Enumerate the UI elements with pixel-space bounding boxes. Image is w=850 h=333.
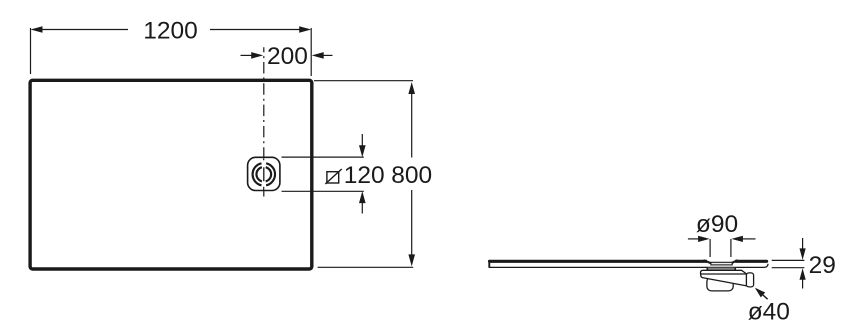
arrowhead 800 top (points up) xyxy=(408,82,415,94)
arrowhead 1200 right xyxy=(299,26,311,33)
arrowhead 29 bottom (points up) xyxy=(800,268,806,280)
dimension 200 right tail xyxy=(322,54,333,56)
arrowhead o90 right (points left) xyxy=(731,236,743,242)
arrowhead 120 top (points down) xyxy=(359,145,366,157)
extension line right (1200/200) xyxy=(310,28,312,76)
drain recess cut-out xyxy=(707,258,735,266)
drain cover plate xyxy=(711,262,732,265)
tray bottom line xyxy=(489,264,768,268)
drain outer circle right arc xyxy=(266,163,275,185)
drain rounded square xyxy=(248,157,280,190)
arrowhead 200 left (points right at centerline) xyxy=(251,52,263,59)
dimension 29 top arrow tail xyxy=(802,238,804,250)
arrowhead 800 bottom (points down) xyxy=(408,254,415,266)
dimension 120 bottom arrow tail xyxy=(361,202,363,214)
drain inner circle right arc xyxy=(266,167,271,181)
trap end cap xyxy=(746,273,753,287)
tray profile top surface (thick) xyxy=(490,260,767,263)
leader line 120 bottom xyxy=(282,190,364,192)
arrowhead 1200 left xyxy=(31,26,43,33)
drain outer circle left arc xyxy=(253,163,262,185)
drain inner circle left arc xyxy=(256,167,261,181)
drain centerline dash below xyxy=(263,187,265,191)
extension line top (29) xyxy=(772,259,805,261)
trap body xyxy=(701,270,747,286)
arrowhead 120 bottom (points up) xyxy=(359,191,366,203)
extension line bottom (29) xyxy=(772,267,805,269)
o40 leader tail xyxy=(763,295,768,299)
extension line bottom (800) xyxy=(318,266,414,268)
dimension 800 vertical line upper segment xyxy=(411,93,413,158)
drain recess left slope xyxy=(704,260,712,263)
leader line 120 top xyxy=(282,156,364,158)
dimension 1200 line left segment xyxy=(41,29,128,31)
svg-text:ø90: ø90 xyxy=(696,211,738,238)
dimension o90 left tail xyxy=(688,238,699,240)
dimension 800 vertical line lower segment xyxy=(411,190,413,256)
extension line left (1200) xyxy=(30,28,32,74)
drain centerline dot above xyxy=(263,158,265,160)
svg-text:200: 200 xyxy=(267,43,308,70)
arrowhead o90 left (points right) xyxy=(698,236,710,242)
square symbol diagonal xyxy=(325,169,341,184)
dimension 120 top arrow tail xyxy=(361,134,363,147)
dimension 29 bottom arrow tail xyxy=(802,279,804,289)
dimension 1200 line right segment xyxy=(210,29,301,31)
svg-text:800: 800 xyxy=(391,162,432,189)
siphon cup xyxy=(707,277,733,291)
svg-text:29: 29 xyxy=(809,252,836,279)
arrowhead 29 top (points down) xyxy=(800,248,806,260)
extension line right (o90) xyxy=(730,239,732,257)
drain centerline dash inside xyxy=(263,167,265,181)
gray seal band under tray xyxy=(707,268,736,270)
dimension 200 left tail xyxy=(241,54,253,56)
seal band right tick xyxy=(734,268,736,271)
svg-text:ø40: ø40 xyxy=(748,298,790,325)
arrowhead 200 right (points left at extension line) xyxy=(312,52,324,59)
extension line left (o90) xyxy=(709,239,711,257)
square symbol for 120 xyxy=(327,172,339,183)
arrowhead o40 leader (points up-left at trap) xyxy=(755,288,765,298)
drain recess right slope xyxy=(731,260,738,263)
tray top-view outline xyxy=(30,80,312,269)
centerline (drain axis, dash-dot) xyxy=(263,47,265,196)
seal band left tick xyxy=(706,268,708,271)
tray left end edge xyxy=(488,260,490,268)
svg-text:120: 120 xyxy=(344,162,385,189)
extension line top (800) xyxy=(314,80,413,82)
trap flange line xyxy=(701,273,746,275)
dimension o90 right tail xyxy=(742,238,756,240)
svg-text:1200: 1200 xyxy=(143,17,198,44)
